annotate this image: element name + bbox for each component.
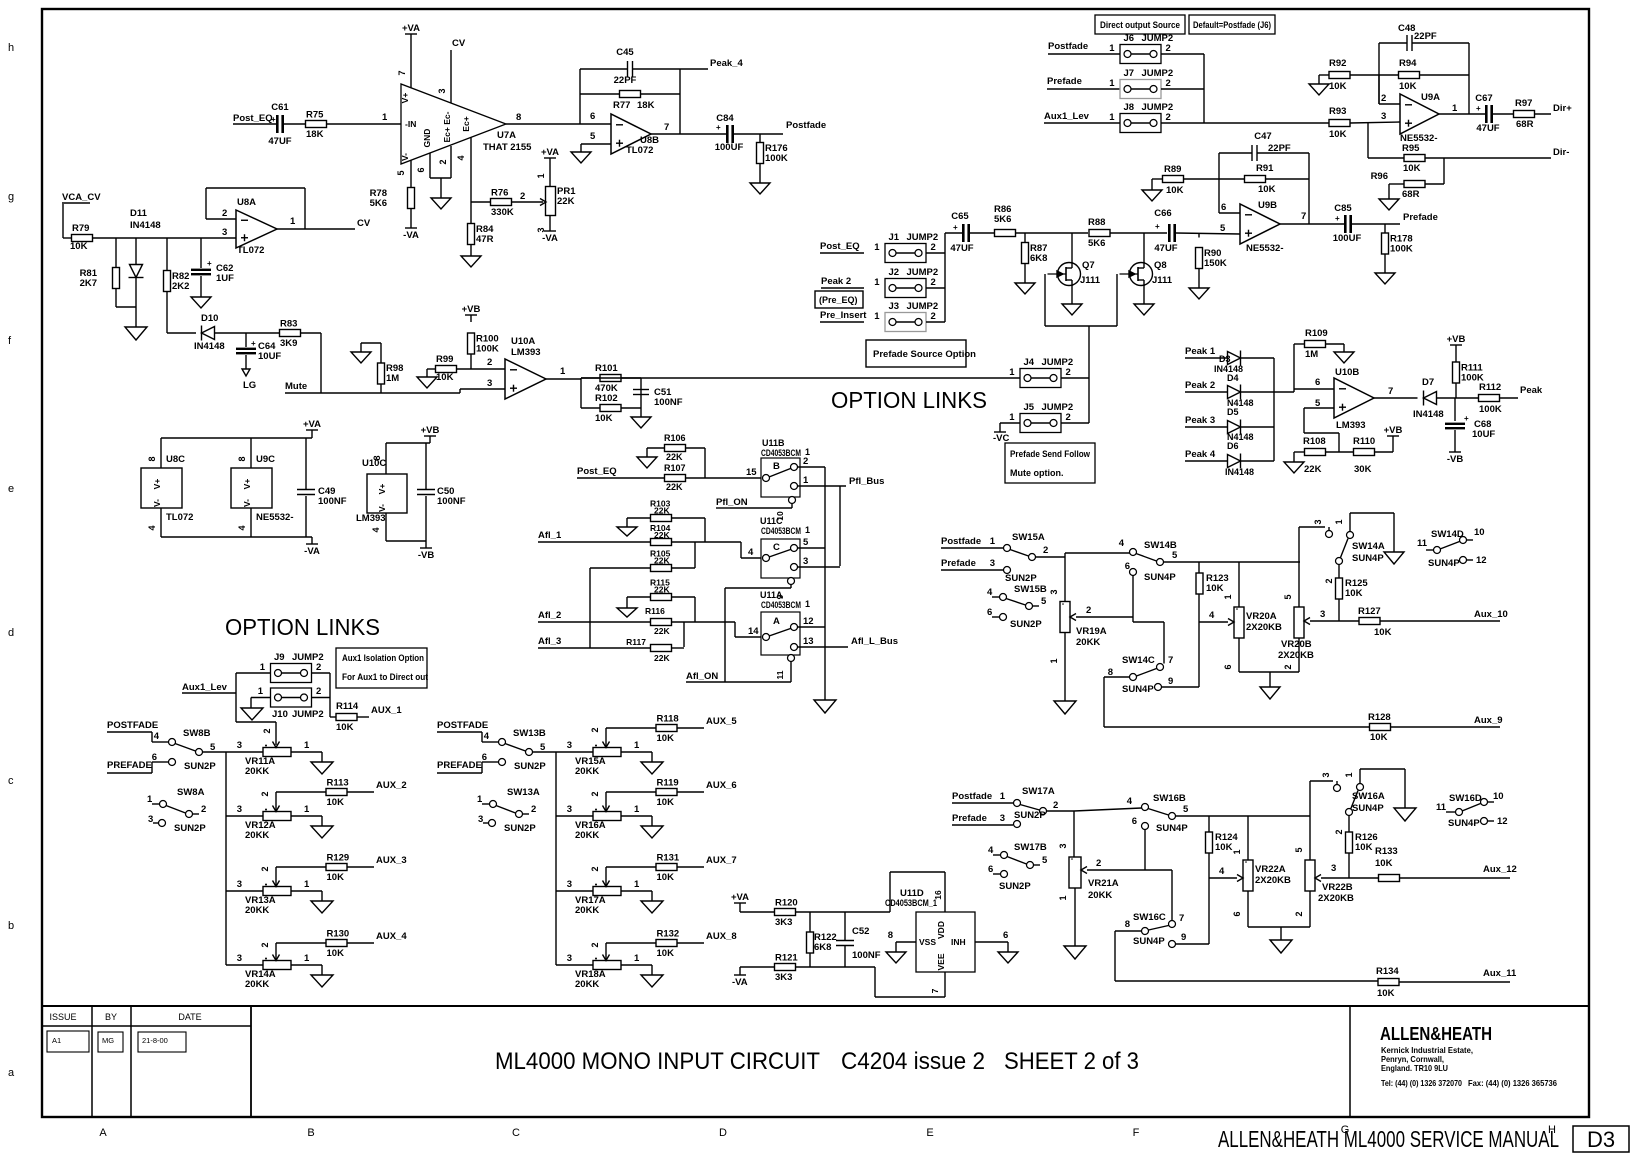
svg-text:D10: D10 (201, 313, 218, 324)
svg-text:R97: R97 (1515, 98, 1532, 109)
svg-text:F: F (1133, 1127, 1140, 1139)
svg-text:SW15A: SW15A (1012, 532, 1045, 543)
wire U11D VEE pin7 (944, 972, 946, 997)
svg-text:OPTION LINKS: OPTION LINKS (831, 387, 987, 413)
resistor R114 10K (330, 716, 336, 718)
svg-text:7: 7 (1388, 386, 1393, 397)
svg-text:England. TR10 9LU: England. TR10 9LU (1381, 1063, 1448, 1073)
svg-text:10K: 10K (1403, 163, 1421, 174)
resistor R92 10K (1319, 74, 1329, 76)
resistor R89 10K (1151, 179, 1153, 190)
svg-text:2: 2 (590, 942, 600, 947)
svg-text:AUX_4: AUX_4 (376, 931, 407, 942)
svg-text:B: B (773, 461, 780, 472)
svg-text:10K: 10K (1206, 583, 1224, 594)
resistor R124 10K (1208, 816, 1210, 832)
ground at R109 (1334, 352, 1354, 363)
svg-text:R119: R119 (657, 778, 679, 789)
svg-text:4: 4 (237, 525, 247, 530)
svg-text:22K: 22K (557, 196, 575, 207)
svg-text:1: 1 (258, 686, 264, 697)
ground above R98 (351, 352, 371, 363)
svg-text:1: 1 (290, 216, 296, 227)
svg-text:C52: C52 (852, 926, 869, 937)
wire C61 to R75 (284, 123, 306, 125)
svg-text:SUN4P: SUN4P (1352, 553, 1384, 564)
svg-text:+VB: +VB (421, 425, 440, 436)
svg-text:6: 6 (1003, 930, 1008, 941)
potentiometer VR22B 2X20KB (1309, 781, 1311, 860)
svg-text:For Aux1 to Direct out: For Aux1 to Direct out (342, 672, 428, 682)
svg-text:10K: 10K (657, 948, 675, 959)
svg-text:3: 3 (803, 556, 808, 567)
svg-text:10: 10 (1474, 527, 1485, 538)
wire feedback top (580, 68, 628, 70)
svg-text:AUX_6: AUX_6 (706, 780, 737, 791)
wire Afl_3 to R105 (589, 568, 591, 648)
svg-text:5K6: 5K6 (370, 198, 387, 209)
table ISSUE/BY/DATE (91, 1006, 93, 1117)
svg-text:20KK: 20KK (575, 979, 599, 990)
wire Aux1_Lev to J9 (235, 673, 237, 722)
svg-text:1: 1 (382, 112, 388, 123)
svg-text:47UF: 47UF (950, 243, 973, 254)
svg-text:11: 11 (1417, 538, 1428, 549)
svg-text:R110: R110 (1353, 436, 1375, 447)
sheet code D3 box (1573, 1126, 1629, 1152)
svg-text:+: + (271, 115, 276, 124)
svg-text:7: 7 (1179, 913, 1184, 924)
comparator U10B LM393 (1334, 378, 1374, 418)
svg-text:CD4053BCM: CD4053BCM (761, 526, 801, 536)
svg-text:3: 3 (222, 227, 227, 238)
wire VR20 bottoms to ground (1238, 638, 1240, 672)
svg-text:100K: 100K (476, 344, 499, 355)
power rail -VA (161, 536, 312, 538)
svg-text:LM393: LM393 (1336, 420, 1366, 431)
box Aux1 Isolation Option (336, 648, 427, 688)
svg-text:R120: R120 (775, 898, 798, 909)
svg-text:R128: R128 (1368, 712, 1391, 723)
svg-text:SW13B: SW13B (513, 728, 546, 739)
company block divider (1349, 1006, 1351, 1117)
resistor R102 10K (581, 407, 600, 409)
svg-text:AUX_2: AUX_2 (376, 780, 407, 791)
svg-text:g: g (8, 191, 14, 203)
svg-text:OPTION LINKS: OPTION LINKS (225, 614, 380, 640)
ground below D11 (135, 307, 137, 327)
svg-text:3: 3 (1321, 772, 1331, 777)
svg-text:3: 3 (567, 740, 572, 751)
svg-text:7: 7 (1301, 211, 1306, 222)
wire R75 to U7A pin1 (327, 123, 402, 125)
svg-text:SHEET 2 of 3: SHEET 2 of 3 (1004, 1048, 1139, 1075)
ground below VR19A (1054, 701, 1076, 714)
svg-text:+: + (1335, 214, 1340, 223)
svg-text:2: 2 (438, 159, 448, 164)
svg-text:J3: J3 (889, 301, 900, 312)
svg-text:R121: R121 (775, 953, 798, 964)
svg-text:100NF: 100NF (437, 496, 466, 507)
jumper J10 JUMP2 (271, 688, 312, 707)
svg-text:U9C: U9C (256, 454, 275, 465)
svg-text:22K: 22K (654, 556, 670, 566)
wire J10 pin1 to ground (251, 697, 270, 699)
wire J9/J10 pin2 to R114 (312, 672, 330, 674)
svg-text:14: 14 (748, 626, 759, 637)
svg-text:7: 7 (930, 988, 940, 993)
svg-text:+: + (1155, 222, 1160, 231)
svg-text:10K: 10K (327, 948, 345, 959)
svg-text:6: 6 (590, 111, 595, 122)
wire R99 to U10A pin2 (457, 368, 506, 370)
resistor R106 22K (647, 447, 665, 449)
svg-text:VR22B: VR22B (1322, 882, 1353, 893)
wire U7A pin4 (470, 137, 472, 224)
svg-text:SUN2P: SUN2P (1010, 619, 1042, 630)
svg-text:V-: V- (377, 504, 387, 512)
svg-text:2: 2 (931, 277, 936, 288)
svg-text:+VA: +VA (303, 419, 321, 430)
svg-text:AUX_3: AUX_3 (376, 855, 407, 866)
svg-text:SW17A: SW17A (1022, 786, 1055, 797)
svg-text:3: 3 (237, 804, 242, 815)
svg-text:Afl_1: Afl_1 (538, 530, 562, 541)
svg-text:47UF: 47UF (268, 136, 291, 147)
svg-text:R96: R96 (1371, 171, 1388, 182)
svg-text:6: 6 (1132, 816, 1137, 827)
ground at R92 (1309, 84, 1329, 95)
svg-text:22K: 22K (654, 626, 670, 636)
power rail +VB for U10C (424, 435, 436, 437)
switch SW14A (1350, 512, 1394, 514)
svg-text:1: 1 (1009, 412, 1015, 423)
svg-text:GND: GND (422, 129, 432, 148)
svg-text:2: 2 (1324, 578, 1334, 583)
svg-text:1: 1 (805, 599, 810, 609)
svg-text:2: 2 (260, 791, 270, 796)
svg-text:VCA_CV: VCA_CV (62, 192, 101, 203)
svg-text:POSTFADE: POSTFADE (437, 720, 488, 731)
svg-text:Peak 1: Peak 1 (1185, 346, 1216, 357)
wire U7A pin5 (410, 160, 412, 188)
svg-text:Dir-: Dir- (1553, 147, 1569, 158)
wire U9B feedback right (1308, 153, 1310, 224)
svg-text:Q7: Q7 (1082, 260, 1095, 271)
svg-text:R77: R77 (613, 100, 630, 111)
svg-text:22PF: 22PF (614, 75, 637, 86)
ground at R99 (417, 377, 437, 388)
svg-text:1M: 1M (1305, 349, 1318, 360)
svg-text:VR20B: VR20B (1281, 639, 1312, 650)
svg-text:U11A: U11A (760, 590, 783, 600)
svg-text:6: 6 (1315, 377, 1320, 388)
svg-text:8: 8 (888, 930, 893, 941)
svg-text:68R: 68R (1516, 119, 1534, 130)
svg-text:U11B: U11B (762, 438, 785, 448)
resistor R122 6K8 (809, 912, 811, 932)
svg-text:R75: R75 (306, 110, 324, 121)
ic U9C NE5532 power (250, 438, 252, 468)
svg-text:SUN2P: SUN2P (514, 761, 546, 772)
svg-text:IN4148: IN4148 (1413, 409, 1444, 420)
svg-text:2: 2 (1166, 112, 1171, 123)
svg-text:4: 4 (456, 155, 466, 160)
svg-text:6K8: 6K8 (814, 942, 831, 953)
svg-text:10K: 10K (1258, 184, 1276, 195)
svg-text:SW17B: SW17B (1014, 842, 1047, 853)
svg-text:R109: R109 (1305, 328, 1328, 339)
svg-text:A1: A1 (52, 1036, 61, 1045)
svg-text:6: 6 (482, 752, 487, 763)
svg-text:Mute: Mute (285, 381, 307, 392)
svg-text:VR21A: VR21A (1088, 878, 1119, 889)
wire SW16B pin6 to VR21A wiper (1144, 830, 1146, 871)
svg-text:+: + (1476, 104, 1481, 113)
svg-text:+: + (716, 123, 721, 132)
svg-text:1: 1 (803, 475, 809, 486)
resistor R95 10K (1368, 157, 1404, 159)
svg-text:R130: R130 (327, 929, 350, 940)
svg-text:AUX_7: AUX_7 (706, 855, 737, 866)
capacitor C49 100NF (305, 438, 307, 489)
svg-text:R91: R91 (1256, 163, 1274, 174)
svg-text:3: 3 (237, 879, 242, 890)
resistor R78 5K6 (408, 188, 415, 209)
svg-text:CD4053BCM: CD4053BCM (761, 448, 801, 458)
resistor R115 22K (627, 596, 651, 598)
wire SW14B bus (1164, 561, 1301, 563)
ground below R90 (1189, 288, 1209, 299)
svg-text:LM393: LM393 (356, 513, 386, 524)
svg-text:5: 5 (1315, 398, 1321, 409)
svg-text:2: 2 (260, 866, 270, 871)
power rail +VA for U8C/U9C (306, 429, 318, 431)
svg-text:1: 1 (1109, 43, 1115, 54)
svg-text:SW15B: SW15B (1014, 584, 1047, 595)
op-amp U7A THAT 2155 (401, 84, 506, 164)
svg-text:IN4148: IN4148 (194, 341, 225, 352)
ground below R87 (1015, 283, 1035, 294)
svg-text:20KK: 20KK (245, 830, 269, 841)
svg-text:2: 2 (1066, 367, 1071, 378)
svg-text:INH: INH (951, 937, 966, 947)
svg-text:2: 2 (1096, 858, 1101, 869)
wire J4 pin2 (1061, 377, 1089, 379)
svg-text:(Pre_EQ): (Pre_EQ) (819, 295, 858, 305)
svg-text:R134: R134 (1376, 966, 1399, 977)
jumper J9 JUMP2 (271, 664, 312, 683)
wire C48 loop (1379, 42, 1407, 44)
svg-text:1: 1 (1058, 895, 1068, 900)
svg-text:3: 3 (487, 378, 492, 389)
svg-text:10K: 10K (657, 797, 675, 808)
svg-text:J111: J111 (1080, 275, 1101, 286)
diode D4 IN4148 (1228, 386, 1241, 399)
svg-text:2: 2 (531, 804, 536, 815)
svg-text:2: 2 (1381, 93, 1386, 104)
svg-text:10K: 10K (1166, 185, 1184, 196)
svg-text:2X20KB: 2X20KB (1255, 875, 1291, 886)
svg-text:1: 1 (634, 879, 640, 890)
svg-text:1: 1 (634, 740, 640, 751)
svg-text:10K: 10K (1377, 988, 1395, 999)
resistor R116 22K (651, 619, 672, 626)
svg-text:AUX_8: AUX_8 (706, 931, 737, 942)
svg-text:R101: R101 (595, 363, 618, 374)
potentiometer VR21A 20KK (1069, 857, 1081, 888)
svg-text:JUMP2: JUMP2 (292, 709, 324, 720)
node Prefade output (1352, 223, 1400, 225)
svg-text:2: 2 (1166, 78, 1171, 89)
svg-text:20KK: 20KK (1076, 637, 1100, 648)
svg-text:2: 2 (931, 311, 936, 322)
svg-text:SW14C: SW14C (1122, 655, 1155, 666)
svg-text:D6: D6 (1227, 441, 1239, 451)
svg-text:10UF: 10UF (1472, 429, 1495, 440)
svg-text:100UF: 100UF (1333, 233, 1362, 244)
ic U10C LM393 power (385, 443, 387, 474)
svg-text:-VA: -VA (403, 230, 419, 241)
wire U8B output (651, 133, 726, 135)
svg-text:1: 1 (304, 953, 310, 964)
svg-text:22K: 22K (654, 530, 670, 540)
resistor R125 10K (1338, 565, 1340, 579)
svg-text:R92: R92 (1329, 58, 1346, 69)
svg-text:10UF: 10UF (258, 351, 281, 362)
svg-text:3: 3 (567, 953, 572, 964)
svg-text:20KK: 20KK (575, 830, 599, 841)
svg-text:13: 13 (803, 636, 814, 647)
svg-text:5: 5 (803, 537, 809, 548)
svg-text:R118: R118 (657, 714, 679, 725)
resistor R127 10K (1359, 618, 1380, 625)
svg-text:3K3: 3K3 (775, 917, 792, 928)
svg-text:PREFADE: PREFADE (437, 760, 482, 771)
svg-text:7: 7 (397, 70, 407, 75)
svg-text:3: 3 (1331, 863, 1336, 874)
svg-text:22PF: 22PF (1414, 31, 1437, 42)
svg-text:6: 6 (1232, 911, 1242, 916)
resistor R123 10K (1198, 562, 1200, 573)
potentiometer VR15A 20KK (556, 751, 593, 753)
svg-text:Postfade: Postfade (786, 120, 826, 131)
svg-text:2: 2 (1043, 545, 1048, 556)
resistor R105 22K (590, 567, 651, 569)
svg-text:SUN4P: SUN4P (1144, 572, 1176, 583)
svg-text:10K: 10K (657, 872, 675, 883)
resistor R101 470K (580, 378, 582, 408)
svg-text:Peak_4: Peak_4 (710, 58, 743, 69)
svg-text:2: 2 (1334, 829, 1344, 834)
svg-text:Peak 2: Peak 2 (1185, 380, 1215, 391)
svg-text:10K: 10K (595, 413, 613, 424)
potentiometer VR14A 20KK (226, 964, 263, 966)
jumper J6 JUMP2 (1120, 45, 1161, 64)
diode D3 IN4148 (1228, 352, 1241, 365)
wire J6/J7/J8 outputs (1161, 53, 1204, 55)
svg-text:10K: 10K (1215, 842, 1233, 853)
svg-text:20KK: 20KK (575, 905, 599, 916)
box (Pre_EQ) (815, 291, 863, 308)
svg-text:SUN4P: SUN4P (1428, 558, 1460, 569)
resistor R128 10K (1104, 726, 1370, 728)
ground below VR21A (1064, 946, 1086, 959)
svg-text:4: 4 (371, 527, 381, 532)
svg-text:C61: C61 (271, 102, 289, 113)
svg-text:BY: BY (105, 1012, 117, 1022)
transistor Q8 J111 (1143, 233, 1145, 263)
svg-text:D7: D7 (1422, 377, 1434, 388)
svg-text:LG: LG (243, 380, 256, 391)
svg-text:V-: V- (242, 499, 252, 507)
svg-text:+: + (953, 223, 958, 232)
svg-text:1: 1 (1344, 772, 1354, 777)
svg-text:TL072: TL072 (237, 245, 264, 256)
svg-text:6: 6 (152, 752, 157, 763)
svg-text:Prefade: Prefade (1403, 212, 1438, 223)
svg-text:D: D (719, 1127, 727, 1139)
svg-text:22K: 22K (654, 585, 670, 595)
resistor R86 5K6 (970, 232, 995, 234)
svg-text:-VB: -VB (1447, 454, 1464, 465)
ground at SW16A (1394, 808, 1416, 821)
svg-text:1: 1 (874, 242, 880, 253)
svg-text:R93: R93 (1329, 106, 1346, 117)
wire U8B pin5 to ground (581, 143, 611, 145)
svg-text:AUX_5: AUX_5 (706, 716, 737, 727)
svg-text:10K: 10K (327, 797, 345, 808)
svg-text:100NF: 100NF (654, 397, 683, 408)
svg-text:SW8B: SW8B (183, 728, 211, 739)
svg-text:22K: 22K (666, 482, 683, 492)
svg-text:V+: V+ (242, 479, 252, 490)
node AUX_1 (357, 716, 369, 718)
svg-text:12: 12 (1497, 816, 1508, 827)
svg-text:6: 6 (1125, 561, 1130, 572)
svg-text:R106: R106 (664, 433, 686, 443)
wire fader bus (555, 752, 557, 965)
svg-text:R117: R117 (626, 637, 646, 647)
svg-text:2: 2 (487, 357, 492, 368)
svg-text:LM393: LM393 (511, 347, 541, 358)
svg-text:C65: C65 (951, 211, 969, 222)
svg-text:1: 1 (1109, 78, 1115, 89)
svg-text:5: 5 (396, 170, 406, 175)
op-amp U9B NE5532 (1240, 204, 1280, 244)
svg-text:10K: 10K (336, 722, 354, 733)
svg-text:Postfade: Postfade (941, 536, 981, 547)
wire SW16B bus (1176, 815, 1311, 817)
svg-text:R107: R107 (664, 463, 686, 473)
svg-text:10K: 10K (1374, 627, 1392, 638)
resistor R81 2K7 (115, 238, 117, 268)
wire U10B pin5 (1304, 407, 1334, 409)
svg-text:22K: 22K (654, 506, 670, 516)
resistor R129 10K (275, 867, 277, 887)
resistor R82 2K2 (166, 238, 168, 271)
svg-text:Tel: (44) (0) 1326 372070: Tel: (44) (0) 1326 372070 (1381, 1078, 1462, 1088)
svg-text:VR22A: VR22A (1255, 864, 1286, 875)
svg-text:3: 3 (567, 879, 572, 890)
svg-text:1: 1 (1109, 112, 1115, 123)
svg-text:2: 2 (590, 791, 600, 796)
svg-text:Mute option.: Mute option. (1010, 468, 1064, 478)
ground pfl/afl bus (814, 700, 836, 713)
svg-text:18K: 18K (637, 100, 655, 111)
svg-text:2: 2 (316, 686, 321, 697)
resistor R112 100K (1479, 395, 1500, 402)
